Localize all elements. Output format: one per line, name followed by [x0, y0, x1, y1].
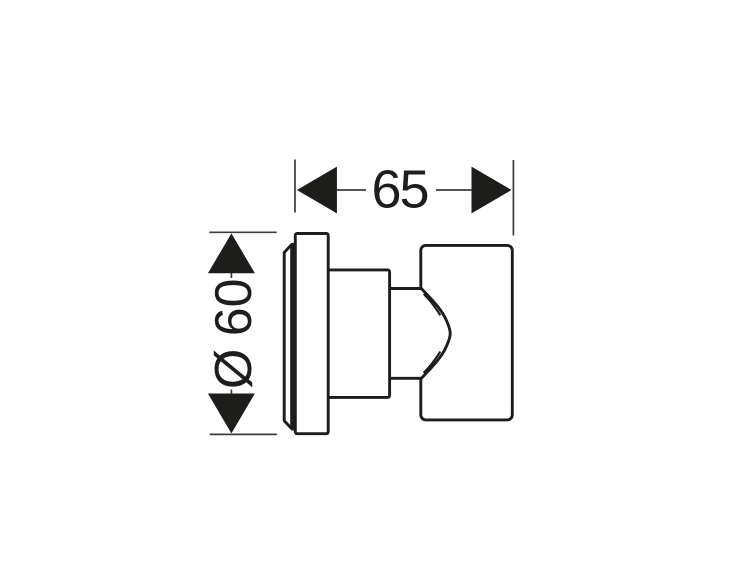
svg-text:65: 65	[371, 160, 427, 220]
svg-text:Ø 60: Ø 60	[205, 278, 263, 389]
